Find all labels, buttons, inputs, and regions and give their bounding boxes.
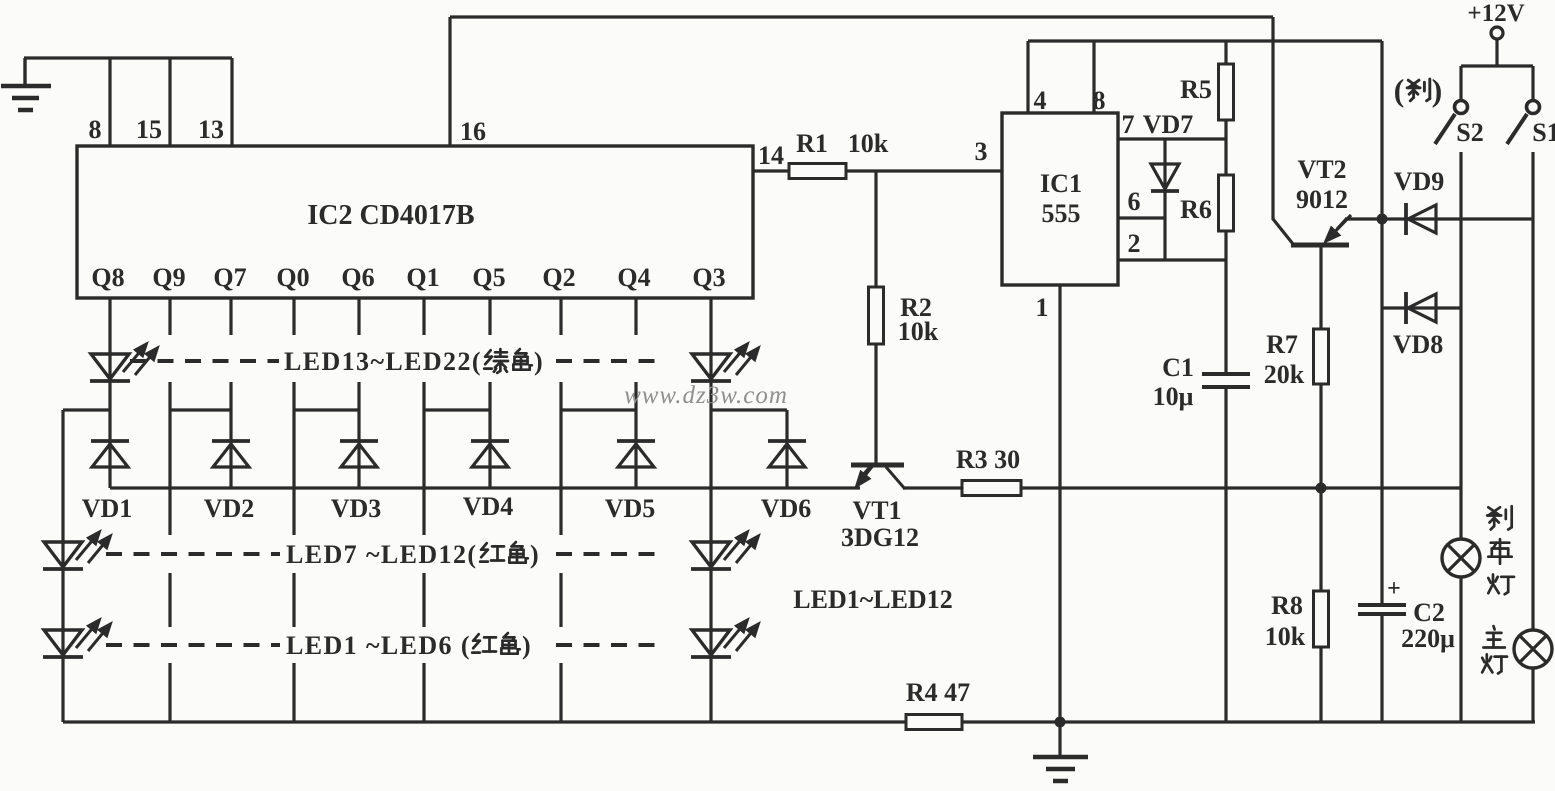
svg-text:IC1: IC1 [1040, 169, 1082, 198]
wire jog Q0 to VD3 [294, 408, 359, 411]
svg-text:2: 2 [1128, 229, 1141, 258]
wire Q2 column [559, 298, 562, 722]
svg-text:LED1~LED12: LED1~LED12 [793, 585, 952, 614]
wire VD7 branch [1163, 139, 1166, 260]
label R8 10k [1265, 591, 1306, 651]
resistor R2 body [869, 287, 884, 344]
svg-text:13: 13 [198, 115, 224, 144]
LED LED1 (red, row2 right) [691, 618, 760, 657]
svg-text:4: 4 [1034, 86, 1047, 115]
transistor VT1 (3DG12) [851, 464, 905, 489]
IC2 CD4017B [77, 146, 753, 298]
IC2 output pin labels Q8 Q9 Q7 Q0 Q6 Q1 Q5 Q2 Q4 Q3 [91, 263, 725, 292]
wire IC1 pin 1 to ground bus [1058, 285, 1061, 722]
wire S2 column [1459, 152, 1462, 539]
wire +12V rail down column [1380, 41, 1383, 605]
wire switch feed [1461, 64, 1533, 67]
wire IC1 pin 4 [1026, 41, 1029, 113]
wire rail down to VT2 base [1271, 17, 1274, 220]
wire +12V rail over IC1 [1028, 39, 1382, 42]
wire C1 to bottom bus [1224, 387, 1227, 722]
diode VD2 [212, 441, 250, 467]
ground (top-left) [1, 58, 51, 110]
node +12V terminal [1467, 0, 1524, 66]
resistor R8 body [1314, 591, 1329, 647]
wire diode bus to VT1 emitter [110, 486, 860, 489]
node junction bottom bus / IC1 pin1 [1055, 717, 1066, 728]
svg-text:R7: R7 [1266, 330, 1298, 359]
resistor R1 body [789, 164, 846, 179]
LED LED22 (green, rightmost) [691, 342, 760, 381]
wire bus to R8 [1319, 488, 1322, 591]
svg-text:10k: 10k [848, 129, 889, 158]
wire C2 to bottom bus [1380, 614, 1383, 722]
lamp main light [1514, 630, 1552, 668]
svg-text:R8: R8 [1271, 591, 1303, 620]
svg-text:): ) [530, 540, 539, 569]
svg-text:8: 8 [1093, 86, 1106, 115]
svg-text:Q7: Q7 [213, 263, 246, 292]
resistor R4 body [906, 715, 962, 730]
wire Q7 column [229, 298, 232, 488]
wire IC2 pin 14 to R1 [753, 169, 791, 172]
wire VD9 row [1382, 217, 1533, 220]
diode VD8 [1406, 292, 1436, 324]
wire Q6 column [357, 298, 360, 488]
wire IC1 pin 8 [1092, 41, 1095, 113]
wire jog Q2 to VD5 [561, 408, 636, 411]
svg-text:9012: 9012 [1296, 185, 1348, 214]
svg-text:Q6: Q6 [341, 263, 374, 292]
svg-text:R1: R1 [796, 129, 828, 158]
svg-text:VD9: VD9 [1394, 167, 1445, 196]
diode VD6 [768, 441, 806, 467]
node junction VT2 emitter / VD9 [1377, 214, 1388, 225]
svg-text:LED13~LED22(: LED13~LED22( [284, 347, 482, 376]
wire Q8 column [108, 298, 111, 488]
op-amp U1 / timer IC1 555 box [1002, 113, 1118, 285]
svg-text:VD5: VD5 [605, 494, 656, 523]
resistor R3 body [962, 481, 1021, 496]
wire Q1 column [422, 298, 425, 722]
wire VD8 row [1382, 306, 1461, 309]
wire bottom ground bus [63, 720, 1535, 723]
dashed line red LED row 1 [106, 552, 662, 556]
diode VD5 [617, 441, 655, 467]
svg-text:14: 14 [758, 141, 784, 170]
LED LED13 (green, leftmost) [90, 342, 159, 381]
svg-text:Q0: Q0 [276, 263, 309, 292]
wire Q4 column [634, 298, 637, 488]
wire jog Q3 to VD6 [711, 408, 787, 411]
svg-text:10k: 10k [1265, 622, 1306, 651]
svg-text:R3 30: R3 30 [956, 445, 1020, 474]
node junction VT2/R7/R8 on bus [1316, 483, 1327, 494]
wire IC2 pin 15 [168, 58, 171, 146]
wire IC1 pin 6 [1118, 216, 1165, 219]
svg-text:16: 16 [460, 117, 486, 146]
svg-text:VD7: VD7 [1143, 110, 1194, 139]
ground (bottom center) [1033, 722, 1088, 781]
wire Q0 column [292, 298, 295, 722]
svg-text:R4 47: R4 47 [906, 678, 970, 707]
svg-text:Q5: Q5 [472, 263, 505, 292]
lamp brake light [1442, 539, 1480, 577]
label LED13~LED22 (green) [284, 347, 543, 376]
svg-text:www.dz3w.com: www.dz3w.com [624, 382, 788, 409]
svg-text:3: 3 [975, 137, 988, 166]
wire left red-LED column [61, 410, 64, 722]
svg-text:Q3: Q3 [692, 263, 725, 292]
LED LED7 (red, row1 right) [691, 530, 760, 569]
wire R7 to bus [1319, 384, 1322, 488]
wire jog Q1 to VD4 [424, 408, 490, 411]
label C2 220u [1401, 598, 1455, 653]
switch S1 [1507, 66, 1540, 144]
svg-text:VD3: VD3 [331, 494, 382, 523]
resistor R7 body [1314, 329, 1329, 384]
transistor VT2 (9012) [1273, 215, 1382, 332]
svg-text:1: 1 [1036, 293, 1049, 322]
svg-text:VD6: VD6 [761, 494, 812, 523]
diode VD9 [1406, 203, 1436, 235]
wire jog Q9 to VD2 [170, 408, 231, 411]
label LED1~LED6 (red) [286, 631, 531, 660]
svg-text:(: ( [1394, 72, 1405, 108]
wire R1 junction down to R2 [874, 171, 877, 290]
svg-text:S1: S1 [1532, 118, 1555, 147]
svg-text:3DG12: 3DG12 [841, 523, 919, 552]
svg-text:10μ: 10μ [1153, 382, 1194, 411]
svg-text:Q9: Q9 [152, 263, 185, 292]
LED LED6 (red, row2 left) [43, 618, 112, 657]
svg-text:Q2: Q2 [542, 263, 575, 292]
svg-text:C1: C1 [1162, 353, 1194, 382]
capacitor C1 [1202, 374, 1250, 387]
wire R5/R6/C1 column upper [1224, 41, 1227, 374]
wire IC1 pin 7 [1118, 137, 1226, 140]
svg-text:VD8: VD8 [1393, 330, 1444, 359]
label LED7~LED12 (red) [286, 540, 539, 569]
svg-text:): ) [534, 347, 543, 376]
wire jog left column to VD1 [63, 408, 110, 411]
diode VD1 [91, 441, 129, 467]
wire R2 to VT1 base [874, 344, 877, 463]
wire S1 column [1531, 152, 1534, 630]
dashed line green LED row [130, 359, 662, 363]
wire R8 to bottom bus [1319, 647, 1322, 722]
svg-text:Q1: Q1 [406, 263, 439, 292]
svg-text:): ) [522, 631, 531, 660]
svg-text:S2: S2 [1456, 118, 1483, 147]
svg-text:8: 8 [89, 115, 102, 144]
label brake light (Chinese) [1487, 506, 1514, 594]
svg-text:555: 555 [1042, 199, 1081, 228]
wire VDD rail top [450, 15, 1273, 18]
svg-text:C2: C2 [1413, 598, 1445, 627]
capacitor C2 [1358, 576, 1406, 614]
wire Q9 column [168, 298, 171, 722]
svg-text:15: 15 [136, 115, 162, 144]
label R7 20k [1264, 330, 1305, 389]
svg-text:): ) [1432, 72, 1443, 108]
label IC1 555 [1040, 169, 1082, 228]
wire brake lamp to bus [1459, 577, 1462, 722]
dashed line red LED row 2 [106, 643, 662, 647]
LED LED12 (red, row1 left) [43, 530, 112, 569]
switch S2 [1435, 66, 1468, 144]
resistor R5 body [1219, 64, 1234, 120]
svg-text:LED1 ~LED6 (: LED1 ~LED6 ( [286, 631, 471, 660]
wire R1 to IC1 pin 3 [846, 169, 1002, 172]
wire main lamp to bus [1531, 668, 1534, 722]
svg-text:VD4: VD4 [463, 492, 514, 521]
wire Q5 column [488, 298, 491, 488]
svg-text:10k: 10k [898, 317, 939, 346]
diode VD7 [1151, 164, 1179, 191]
label (brake) [1394, 72, 1443, 108]
svg-text:Q8: Q8 [91, 263, 124, 292]
wire IC1 pin 2 [1118, 258, 1226, 261]
svg-text:R5: R5 [1180, 75, 1212, 104]
svg-text:+: + [1387, 576, 1401, 602]
svg-text:VT1: VT1 [852, 496, 901, 525]
svg-text:IC2 CD4017B: IC2 CD4017B [307, 200, 474, 231]
svg-text:VD2: VD2 [204, 494, 255, 523]
svg-text:6: 6 [1128, 187, 1141, 216]
diode VD3 [340, 441, 378, 467]
svg-text:220μ: 220μ [1401, 624, 1455, 653]
svg-text:+12V: +12V [1467, 0, 1524, 27]
svg-text:VT2: VT2 [1297, 155, 1346, 184]
label C1 10u [1153, 353, 1194, 411]
svg-text:20k: 20k [1264, 360, 1305, 389]
wire IC2 pin 8 [108, 58, 111, 146]
label main light (Chinese) [1482, 626, 1507, 673]
wire Q3 column [709, 298, 712, 722]
svg-text:LED7 ~LED12(: LED7 ~LED12( [286, 540, 477, 569]
wire IC2 pin 16 [448, 17, 451, 146]
wire VD6 column [785, 410, 788, 488]
diode VD4 [471, 441, 509, 467]
svg-text:VD1: VD1 [82, 494, 133, 523]
wire VT1 to R3 to right network [903, 486, 1460, 489]
svg-text:7: 7 [1122, 110, 1135, 139]
wire IC2 pin 13 [230, 58, 233, 146]
svg-text:Q4: Q4 [617, 263, 650, 292]
wire ground to IC2 pins 8/15/13 [24, 56, 232, 59]
svg-text:R6: R6 [1180, 195, 1212, 224]
resistor R6 body [1219, 175, 1234, 231]
